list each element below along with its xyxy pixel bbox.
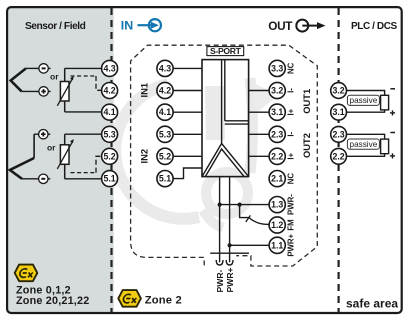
- passive load 2 wiring: [346, 134, 384, 156]
- svg-text:4.2: 4.2: [159, 86, 171, 96]
- TC2 minus terminal: [39, 174, 48, 183]
- svg-text:IN: IN: [121, 19, 133, 33]
- svg-text:I-: I-: [287, 132, 296, 137]
- svg-text:passive: passive: [350, 96, 378, 105]
- separator safe area dashed line: [338, 8, 340, 312]
- svg-text:5.1: 5.1: [159, 174, 171, 184]
- svg-text:IN1: IN1: [138, 83, 149, 98]
- inner right terminal circles: [269, 60, 285, 253]
- S-PORT label box: [207, 47, 244, 56]
- out1/out2 divider double line: [225, 120, 249, 122]
- FM contact to 1.2: [240, 205, 249, 218]
- svg-text:PWR+: PWR+: [225, 267, 235, 292]
- svg-text:5.1: 5.1: [103, 174, 115, 184]
- svg-text:1.3: 1.3: [271, 200, 283, 210]
- passive label box 1: [347, 95, 379, 105]
- wires box to inner-right terminals: [249, 91, 270, 157]
- svg-text:safe area: safe area: [346, 297, 398, 311]
- Ex logo (zones 0-2 / 20-22): [15, 265, 38, 282]
- svg-text:S-PORT: S-PORT: [210, 46, 242, 56]
- wires inner-left terminals to box: [173, 68, 202, 178]
- resistor load 1: [381, 95, 389, 110]
- power isolation chevron: [202, 144, 249, 177]
- watermark logo stem: [215, 86, 216, 140]
- RTD2 arrow: [57, 142, 72, 169]
- passive label box 2: [347, 139, 379, 149]
- plus sign load 2: [390, 155, 395, 157]
- minus sign load 2: [390, 132, 395, 134]
- svg-text:2.3: 2.3: [271, 129, 283, 139]
- svg-text:Zone 2: Zone 2: [145, 294, 182, 306]
- dashed third wire to 4.2: [71, 75, 97, 77]
- svg-text:5.2: 5.2: [103, 151, 115, 161]
- svg-text:I-: I-: [287, 88, 296, 93]
- svg-text:Zone 20,21,22: Zone 20,21,22: [16, 295, 89, 307]
- connector bar: [210, 252, 249, 254]
- watermark logo right band: [250, 78, 253, 173]
- separator field/ex dashed line: [110, 8, 112, 312]
- svg-text:5.3: 5.3: [159, 129, 171, 139]
- svg-text:4.3: 4.3: [159, 63, 171, 73]
- RTD1 resistor: [60, 68, 69, 112]
- svg-text:2.3: 2.3: [332, 129, 344, 139]
- svg-text:1.2: 1.2: [271, 220, 283, 230]
- dashed third wire to 5.2: [71, 172, 97, 174]
- svg-text:PLC / DCS: PLC / DCS: [351, 21, 398, 32]
- rotated terminal function labels: [287, 62, 296, 256]
- watermark logo big arc: [115, 84, 199, 219]
- wire RTD1 to 4.1: [65, 111, 102, 113]
- svg-text:IN2: IN2: [138, 149, 149, 164]
- device box U1: [202, 60, 249, 177]
- grey sensor/field panel: [8, 8, 114, 312]
- resistor load 2: [381, 139, 389, 154]
- svg-text:or: or: [47, 143, 56, 153]
- svg-text:passive: passive: [350, 140, 378, 149]
- IN symbol arrow-circle: [138, 19, 161, 31]
- Ex logo (zone 2): [118, 290, 141, 307]
- inner left terminal circles: [157, 60, 173, 186]
- wire RTD1 to 4.3: [65, 67, 102, 69]
- outer left terminal circles 4.3-5.1: [102, 60, 118, 186]
- watermark logo hook: [203, 210, 223, 228]
- Zone 2 dashed device outline: [131, 45, 318, 266]
- svg-text:3.2: 3.2: [271, 86, 283, 96]
- svg-text:PWR-: PWR-: [215, 269, 225, 292]
- svg-text:3.1: 3.1: [271, 107, 283, 117]
- svg-text:PWR+: PWR+: [287, 233, 296, 256]
- minus sign load 1: [390, 88, 395, 90]
- svg-text:4.3: 4.3: [103, 63, 115, 73]
- wire-end fork PWR+: [226, 260, 233, 265]
- wire-end fork PWR-: [216, 260, 223, 265]
- svg-text:4.2: 4.2: [103, 86, 115, 96]
- isolation barrier vertical double line: [221, 60, 223, 144]
- wire RTD2 to 5.3: [65, 133, 102, 135]
- svg-text:4.1: 4.1: [159, 107, 171, 117]
- svg-text:5.2: 5.2: [159, 151, 171, 161]
- svg-text:FM: FM: [287, 219, 296, 230]
- svg-text:2.1: 2.1: [271, 174, 283, 184]
- watermark logo bowl ring: [206, 172, 248, 214]
- svg-text:3.2: 3.2: [332, 86, 344, 96]
- wire to 1.3 with junctions: [220, 204, 270, 206]
- TC2 plus terminal: [39, 130, 48, 139]
- thermocouple TC2: [10, 134, 50, 179]
- TC1 plus terminal: [39, 87, 48, 96]
- svg-text:NC: NC: [287, 173, 296, 185]
- PWR wires down from box: [219, 177, 221, 263]
- RTD1 arrow: [57, 79, 72, 106]
- svg-text:5.3: 5.3: [103, 129, 115, 139]
- svg-text:2.2: 2.2: [332, 151, 344, 161]
- svg-text:I+: I+: [287, 108, 296, 115]
- svg-text:OUT: OUT: [268, 19, 293, 33]
- svg-text:2.2: 2.2: [271, 151, 283, 161]
- svg-text:Sensor / Field: Sensor / Field: [25, 21, 86, 32]
- wire to 1.1 with junction: [230, 244, 270, 246]
- svg-text:or: or: [50, 72, 59, 82]
- svg-text:1.1: 1.1: [271, 240, 283, 250]
- svg-text:I+: I+: [287, 153, 296, 160]
- svg-text:OUT2: OUT2: [301, 133, 312, 158]
- passive load 1 wiring: [346, 91, 384, 113]
- OUT symbol circle-arrow: [296, 20, 318, 32]
- RTD2 resistor: [60, 134, 69, 179]
- outer right terminal circles: [331, 83, 347, 165]
- wire RTD2 to 5.1: [65, 178, 102, 180]
- thermocouple TC1: [11, 68, 51, 91]
- svg-text:3.3: 3.3: [271, 63, 283, 73]
- svg-text:PWR-: PWR-: [287, 194, 296, 215]
- svg-text:NC: NC: [287, 62, 296, 74]
- TC1 minus terminal: [39, 64, 48, 73]
- watermark logo arrowhead: [253, 83, 279, 113]
- svg-text:4.1: 4.1: [103, 107, 115, 117]
- svg-text:3.1: 3.1: [332, 107, 344, 117]
- svg-text:OUT1: OUT1: [301, 89, 312, 114]
- plus sign load 1: [390, 112, 395, 114]
